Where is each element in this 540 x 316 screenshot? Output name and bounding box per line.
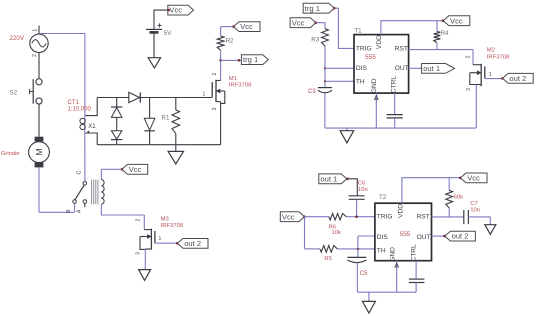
svg-text:CTRL: CTRL <box>391 76 398 94</box>
svg-text:OUT: OUT <box>417 234 431 241</box>
svg-text:Vcc: Vcc <box>282 212 295 221</box>
svg-text:10n: 10n <box>358 187 368 193</box>
svg-text:out 2: out 2 <box>509 74 526 83</box>
svg-text:Vcc: Vcc <box>467 174 480 183</box>
svg-text:10k: 10k <box>332 230 341 236</box>
svg-text:Vcc: Vcc <box>450 16 463 25</box>
svg-text:RST: RST <box>417 214 430 221</box>
svg-text:IRF3708: IRF3708 <box>487 54 510 60</box>
svg-text:TH: TH <box>377 248 386 255</box>
svg-text:2: 2 <box>32 54 38 57</box>
svg-text:out 1: out 1 <box>423 64 440 73</box>
svg-text:T1: T1 <box>354 28 362 35</box>
svg-text:555: 555 <box>365 54 376 61</box>
svg-text:1: 1 <box>33 29 39 32</box>
svg-text:M1: M1 <box>229 76 237 82</box>
svg-text:Grinder: Grinder <box>1 151 20 157</box>
svg-text:3: 3 <box>466 88 472 91</box>
svg-text:1: 1 <box>203 91 206 97</box>
svg-text:10n: 10n <box>470 207 480 213</box>
svg-text:VDD: VDD <box>397 204 404 218</box>
svg-text:220V: 220V <box>10 35 25 42</box>
svg-text:C6: C6 <box>358 180 366 186</box>
svg-text:C3: C3 <box>308 89 316 95</box>
svg-text:TRIG: TRIG <box>356 46 372 53</box>
svg-text:C7: C7 <box>470 201 478 207</box>
svg-text:M2: M2 <box>487 48 495 54</box>
svg-text:2: 2 <box>465 55 471 58</box>
svg-text:R5: R5 <box>324 256 331 262</box>
svg-text:S2: S2 <box>10 90 18 97</box>
svg-text:out 2: out 2 <box>452 232 469 241</box>
svg-text:1:10,000: 1:10,000 <box>68 107 92 113</box>
svg-text:3: 3 <box>212 107 218 110</box>
svg-text:C: C <box>76 170 82 174</box>
svg-text:R2: R2 <box>226 38 234 45</box>
svg-text:2: 2 <box>212 72 218 75</box>
svg-text:5V: 5V <box>164 30 172 37</box>
svg-text:IRF3708: IRF3708 <box>161 223 184 229</box>
svg-text:T2: T2 <box>379 194 387 201</box>
svg-text:X1: X1 <box>88 124 96 130</box>
svg-text:3: 3 <box>136 252 142 255</box>
svg-text:out 2: out 2 <box>184 239 201 248</box>
svg-text:GND: GND <box>389 247 396 262</box>
svg-text:Vcc: Vcc <box>240 22 253 31</box>
svg-text:60k: 60k <box>454 194 463 200</box>
svg-text:TRIG: TRIG <box>377 214 393 221</box>
svg-text:Vcc: Vcc <box>129 165 142 174</box>
svg-text:C5: C5 <box>360 271 368 277</box>
svg-text:CT1: CT1 <box>68 100 80 106</box>
svg-text:CTRL: CTRL <box>411 244 418 262</box>
svg-text:B: B <box>66 209 72 213</box>
svg-text:IRF3708: IRF3708 <box>229 83 252 89</box>
svg-text:trg 1: trg 1 <box>243 55 258 64</box>
svg-text:R3: R3 <box>311 37 319 44</box>
svg-text:Vcc: Vcc <box>292 18 305 27</box>
svg-text:RST: RST <box>395 46 408 53</box>
svg-text:GND: GND <box>371 78 378 93</box>
svg-text:DIS: DIS <box>377 234 389 241</box>
svg-text:Vcc: Vcc <box>169 6 182 15</box>
svg-text:1: 1 <box>159 236 162 242</box>
svg-text:M3: M3 <box>161 217 170 223</box>
svg-text:VDD: VDD <box>376 35 383 49</box>
svg-text:R4: R4 <box>441 30 449 37</box>
svg-text:trg 1: trg 1 <box>305 4 320 13</box>
svg-text:OUT: OUT <box>395 65 409 72</box>
svg-text:TH: TH <box>356 79 365 86</box>
svg-text:A: A <box>77 209 83 213</box>
svg-text:555: 555 <box>400 231 411 238</box>
svg-text:R1: R1 <box>162 115 170 122</box>
svg-text:DIS: DIS <box>356 65 368 72</box>
svg-text:M: M <box>34 148 44 155</box>
svg-text:2: 2 <box>136 218 142 221</box>
svg-text:1: 1 <box>489 72 492 78</box>
svg-text:out 1: out 1 <box>320 174 337 183</box>
